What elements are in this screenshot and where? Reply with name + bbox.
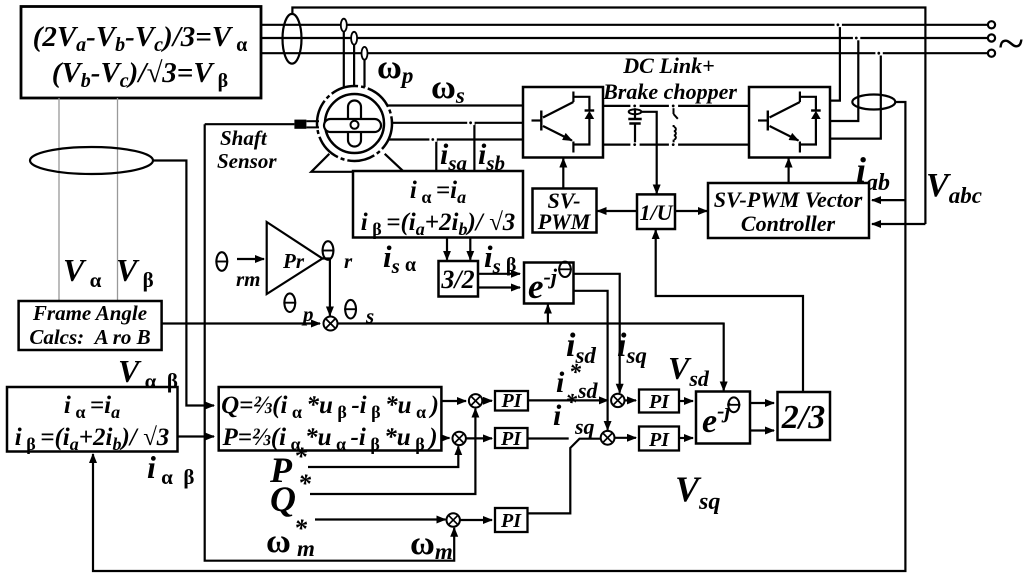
wire: rotor line 3 to converter xyxy=(388,138,523,140)
svg-text:Shaft: Shaft xyxy=(220,126,268,150)
svg-text:1/U: 1/U xyxy=(640,200,674,225)
svg-text:sd: sd xyxy=(577,378,599,403)
node: d-axis summing junction xyxy=(611,394,624,407)
svg-text:P=⅔(i α *u α -i β *u β ): P=⅔(i α *u α -i β *u β ) xyxy=(221,424,437,454)
label: theta rm xyxy=(215,252,228,271)
wire: grid phase line 1 xyxy=(261,24,988,26)
node: theta summing junction xyxy=(324,317,338,331)
wire: DC link upper rail xyxy=(603,105,749,107)
node: grid terminal 1 xyxy=(988,21,995,28)
wire: PI-Q output to d-axis summing xyxy=(528,399,608,401)
wire: stator supply tap 2 xyxy=(353,41,355,87)
svg-text:PI: PI xyxy=(500,428,522,450)
component: alpha-beta bundling ellipse xyxy=(30,147,153,174)
wire: shaft sensor line to left xyxy=(205,123,295,125)
block: rotor-side converter box xyxy=(523,87,603,158)
svg-text:PI: PI xyxy=(648,391,670,413)
wire: grid phase line 2 xyxy=(261,37,988,39)
block: PI controller P xyxy=(495,428,528,450)
wire: PI-P output (open at switch) xyxy=(528,437,569,439)
block: e-jtheta rotation box 2 xyxy=(696,392,750,444)
block: PI controller Q xyxy=(495,390,528,412)
component: grid measuring ellipse xyxy=(283,14,302,64)
svg-text:(Vb-Vc)/√3=V β: (Vb-Vc)/√3=V β xyxy=(52,57,228,92)
svg-text:3/2: 3/2 xyxy=(440,265,474,294)
label: theta p xyxy=(283,293,296,312)
svg-text:PI: PI xyxy=(500,510,522,532)
label: theta r xyxy=(322,241,335,260)
svg-text:Sensor: Sensor xyxy=(217,149,277,173)
component: rotor cross vertical lobe xyxy=(348,101,361,147)
wire: P* reference line xyxy=(308,446,458,467)
svg-text:DC Link+: DC Link+ xyxy=(622,53,714,78)
block: grid-side converter box xyxy=(749,87,830,158)
wire: i_beta down to 3/2 xyxy=(469,238,471,260)
svg-text:Q=⅔(i α *u β -i β *u α ): Q=⅔(i α *u β -i β *u α ) xyxy=(221,392,439,422)
component: rotor cross horizontal lobe xyxy=(324,119,381,132)
node: dash-dot junction at 673.5,105.9 xyxy=(669,104,678,109)
component: rotor current CT ellipse xyxy=(852,95,895,110)
wire: e-jtheta2 to 2/3 lower xyxy=(750,429,774,431)
svg-text:2/3: 2/3 xyxy=(781,399,825,436)
wire: theta_p line from Frame Angle to summing node xyxy=(162,322,321,324)
block: SV-PWM Vector Controller box xyxy=(708,183,869,238)
block: 1/U box xyxy=(637,194,675,229)
component: induction machine outer circle xyxy=(317,86,392,161)
wire: d node to PI xyxy=(625,399,637,401)
wire: theta_s line to rotation blocks xyxy=(338,322,724,324)
wire: rotor line 2 to converter xyxy=(392,122,523,124)
wire: controller to grid converter xyxy=(787,159,789,184)
block: P/Q calculator box xyxy=(219,387,442,454)
svg-text:Q: Q xyxy=(270,479,296,519)
svg-text:rm: rm xyxy=(236,267,261,291)
svg-text:m: m xyxy=(297,536,315,561)
wire: grid converter output a xyxy=(830,25,840,101)
svg-text:(2Va-Vb-Vc)/3=V α: (2Va-Vb-Vc)/3=V α xyxy=(33,21,248,56)
wire: 1/U to vector controller xyxy=(675,210,707,212)
component: DC link capacitor xyxy=(628,106,641,145)
component: induction machine inner circle xyxy=(325,94,384,153)
node: dash-dot junction at 635,144.6 xyxy=(630,142,639,147)
wire: 3/2 to e-jtheta upper xyxy=(478,273,520,275)
component: probe 2 on phase 2 xyxy=(351,32,357,45)
block: grid current Clarke box (bottom left) xyxy=(7,387,178,454)
wire: grid converter output c xyxy=(830,53,881,138)
wire: i_alphabeta to P/Q calculator xyxy=(178,435,215,437)
wire: P node to PI xyxy=(466,437,492,439)
svg-text:*: * xyxy=(298,469,312,498)
wire: stator supply tap 1 xyxy=(343,28,345,88)
node: dash-dot junction at 839.9,24.8 xyxy=(835,23,842,28)
block: stator current Clarke box xyxy=(353,171,523,239)
wire: Q* reference line xyxy=(310,409,475,494)
wire: rotor line 1 to converter xyxy=(388,104,523,106)
node: dash-dot junction at 635,105.9 xyxy=(630,104,639,109)
node: dash-dot junction at 880.8,53.2 xyxy=(875,51,882,56)
block: 2/3 transform box xyxy=(778,392,831,440)
wire: grid phase line 3 xyxy=(261,52,988,54)
svg-text:*: * xyxy=(294,442,308,471)
node: speed summing junction xyxy=(447,513,460,526)
wire: i_ab branch into controller xyxy=(872,199,905,201)
wire: omega* reference line xyxy=(315,518,445,520)
svg-text:p: p xyxy=(301,302,314,326)
component: probe 1 on phase 1 xyxy=(341,19,347,32)
block: SV-PWM box xyxy=(533,188,597,234)
block: 3/2 transform box xyxy=(439,261,479,297)
block: Clarke voltage transform box xyxy=(21,7,261,99)
wire: 1/U to SV-PWM xyxy=(598,210,638,212)
wire: P output to summing node xyxy=(441,437,449,439)
wire: gray sense line V_beta xyxy=(117,98,119,301)
svg-text:PI: PI xyxy=(648,429,670,451)
svg-text:Frame Angle: Frame Angle xyxy=(32,301,147,325)
wire: grid converter output b xyxy=(830,38,858,121)
wire: Q node to PI xyxy=(482,400,492,402)
component: Pr triangle amplifier xyxy=(267,222,323,294)
svg-text:~: ~ xyxy=(998,17,1024,70)
component: rotor hub circle xyxy=(351,121,359,129)
svg-text:SV-PWM Vector: SV-PWM Vector xyxy=(714,187,863,212)
wire: theta_s branch down into e-jtheta 2 xyxy=(723,323,725,391)
svg-text:Calcs: A ro B: Calcs: A ro B xyxy=(29,325,150,349)
wire: i_ab measurement line down and bottom feedback xyxy=(93,102,905,571)
block: e-jtheta rotation box 1 xyxy=(524,262,574,306)
svg-text:sq: sq xyxy=(574,414,595,439)
svg-text:Pr: Pr xyxy=(282,249,305,273)
svg-text:Brake chopper: Brake chopper xyxy=(602,79,737,104)
svg-text:s: s xyxy=(365,304,374,328)
wire: Q output to summing node xyxy=(441,400,466,402)
component: brake chopper inductor xyxy=(674,106,678,145)
node: grid terminal 3 xyxy=(988,50,995,57)
svg-text:PWM: PWM xyxy=(537,209,592,234)
block: PI controller d-axis xyxy=(639,390,679,414)
svg-text:ω: ω xyxy=(266,523,291,560)
svg-text:i: i xyxy=(556,366,565,399)
wire: theta_rm input arrow xyxy=(237,258,264,260)
svg-text:r: r xyxy=(344,249,353,273)
wire: i_sq from e-jtheta1 to dq compare xyxy=(574,291,608,430)
wire: PI-q to e-jtheta2 xyxy=(679,437,693,439)
node: dash-dot junction at 673.5,144.6 xyxy=(669,142,678,147)
wire: SV-PWM to rotor converter xyxy=(562,159,564,189)
wire: speed PI output to q-axis switch xyxy=(528,439,601,514)
block: PI controller q-axis xyxy=(639,427,679,452)
wire: i_sd from e-jtheta1 to dq compare xyxy=(574,274,620,393)
component: probe 3 on phase 3 xyxy=(362,47,368,60)
wire: e-jtheta2 to 2/3 upper xyxy=(750,402,774,404)
node: P summing junction xyxy=(453,432,466,445)
svg-text:i: i xyxy=(553,399,562,432)
node: Q summing junction xyxy=(469,394,482,407)
block: PI controller speed xyxy=(495,508,528,532)
wire: DC voltage measure to 1/U xyxy=(641,112,656,194)
wire: i_sb measurement tap xyxy=(473,123,475,171)
block: Frame Angle Calcs box xyxy=(19,301,162,350)
wire: DC link lower rail xyxy=(603,144,749,146)
wire: i_sa measurement tap xyxy=(435,140,437,172)
wire: theta_r from Pr apex down to summing node xyxy=(322,259,330,316)
component: machine mounting base xyxy=(311,154,404,172)
wire: i_alpha down to 3/2 xyxy=(446,238,448,260)
wire: 2/3 output up to 1/U xyxy=(656,230,803,392)
wire: speed node to PI xyxy=(460,519,492,521)
wire: theta_s branch up into e-jtheta 1 xyxy=(547,305,549,324)
component: shaft sensor square xyxy=(294,120,306,129)
label: theta s xyxy=(344,300,357,319)
svg-text:Controller: Controller xyxy=(741,211,836,236)
node: dash-dot junction at 472.6,122.8 xyxy=(467,121,474,126)
node: dash-dot junction at 434.8,139.5 xyxy=(429,137,436,142)
wire: grid phase line A (top signal line Vabc run) xyxy=(292,8,925,225)
node: q-axis summing junction xyxy=(601,431,615,445)
node: dash-dot junction at 858.3,38 xyxy=(853,36,860,41)
wire: stator supply tap 3 xyxy=(363,56,365,87)
node: grid terminal 2 xyxy=(988,34,995,41)
wire: shaft sensor vertical feedback xyxy=(205,124,455,561)
svg-text:*: * xyxy=(565,390,578,416)
svg-text:PI: PI xyxy=(501,390,523,412)
wire: gray sense line V_alpha xyxy=(58,98,60,301)
wire: q node to PI xyxy=(615,437,637,439)
wire: PI-d to e-jtheta2 xyxy=(679,400,693,402)
wire: 3/2 to e-jtheta lower xyxy=(478,286,520,288)
wire: u_alphabeta line from ellipse to Q/P block xyxy=(153,161,214,406)
wire: shaft stub double line xyxy=(307,120,320,122)
